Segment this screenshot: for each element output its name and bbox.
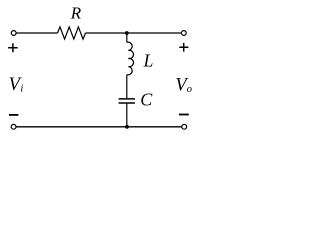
- wire from top node down to inductor: [126, 33, 128, 42]
- svg-text:C: C: [140, 89, 153, 109]
- svg-text:L: L: [143, 51, 154, 71]
- minus sign right: [179, 114, 189, 116]
- inductor L: [127, 42, 134, 75]
- wire top-left segment: [16, 32, 57, 34]
- resistor R: [58, 27, 86, 39]
- wire bottom rail: [16, 126, 182, 128]
- terminal top-left: [11, 31, 16, 36]
- svg-text:R: R: [70, 4, 82, 23]
- wire inductor to capacitor: [126, 75, 128, 99]
- wire capacitor to bottom node: [126, 104, 128, 127]
- wire top-right segment: [86, 32, 182, 34]
- node junction bottom: [125, 125, 129, 129]
- capacitor C: [119, 99, 135, 103]
- plus sign left: [8, 43, 18, 52]
- minus sign left: [9, 114, 19, 116]
- terminal bottom-right: [182, 124, 187, 129]
- terminal bottom-left: [11, 124, 16, 129]
- node junction top: [125, 31, 129, 35]
- plus sign right: [179, 43, 188, 52]
- terminal top-right: [181, 31, 186, 36]
